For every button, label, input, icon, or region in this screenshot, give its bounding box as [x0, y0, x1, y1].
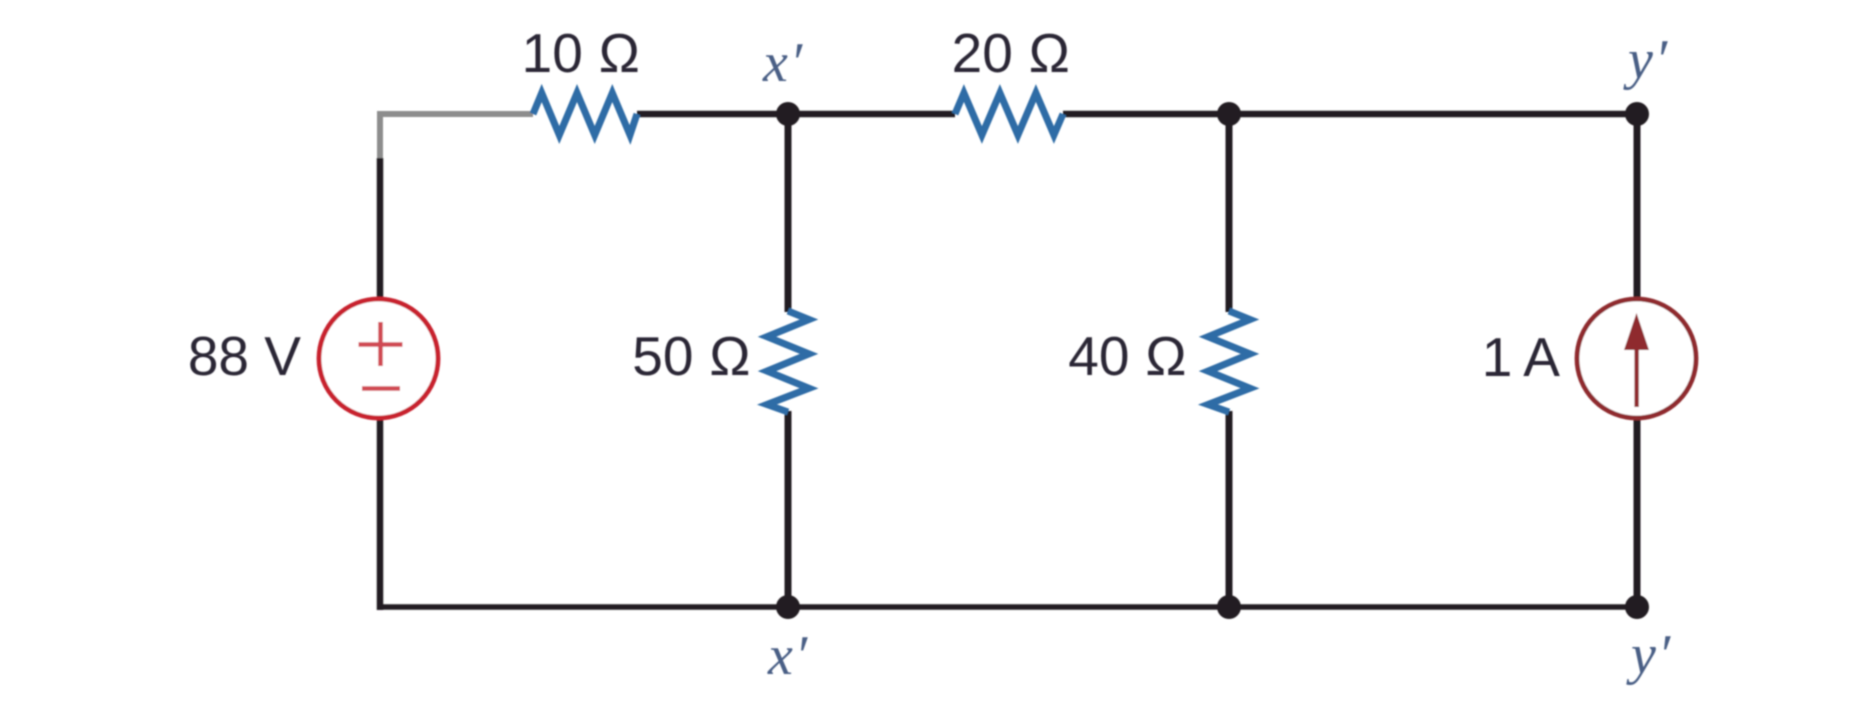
- svg-text:x′: x′: [767, 625, 809, 687]
- svg-text:50 Ω: 50 Ω: [632, 325, 751, 387]
- node dot x' top: [776, 102, 800, 126]
- svg-text:1 A: 1 A: [1482, 326, 1561, 388]
- resistor 50 ohm: [767, 311, 809, 412]
- voltage source 88V circle: [319, 299, 438, 418]
- svg-text:20 Ω: 20 Ω: [952, 22, 1071, 84]
- svg-text:88 V: 88 V: [188, 325, 301, 387]
- current source arrow: [1624, 313, 1649, 407]
- node dot x' bottom: [776, 595, 800, 619]
- wire 40ohm branch lower: [1226, 411, 1233, 610]
- wire left vertical lower: [377, 418, 384, 610]
- svg-text:10 Ω: 10 Ω: [522, 22, 641, 84]
- wire left vertical upper: [377, 158, 384, 299]
- node dot 40ohm top: [1217, 102, 1241, 126]
- resistor 20 ohm: [955, 93, 1063, 135]
- wire right vertical upper: [1634, 111, 1641, 301]
- resistor 10 ohm: [533, 93, 637, 135]
- svg-text:y′: y′: [1626, 624, 1672, 686]
- node dot y' bottom: [1625, 595, 1649, 619]
- resistor 40 ohm: [1208, 311, 1250, 412]
- node dot 40ohm bottom: [1217, 595, 1241, 619]
- wire x' branch upper: [785, 111, 792, 312]
- wire x' branch lower: [785, 411, 792, 610]
- wire top between 20ohm and node y': [1063, 111, 1640, 118]
- voltage source minus: [362, 386, 400, 391]
- svg-text:y′: y′: [1623, 29, 1669, 91]
- svg-text:x′: x′: [762, 32, 804, 94]
- wire top-left gray segment: [380, 114, 533, 162]
- wire top between 10ohm and 20ohm: [637, 111, 955, 118]
- wire 40ohm branch upper: [1226, 111, 1233, 312]
- wire bottom: [377, 604, 1640, 610]
- wire right vertical lower: [1634, 417, 1641, 610]
- current source 1A circle: [1577, 299, 1696, 418]
- voltage source plus: [359, 322, 403, 366]
- node dot y' top: [1625, 102, 1649, 126]
- svg-text:40 Ω: 40 Ω: [1068, 325, 1187, 387]
